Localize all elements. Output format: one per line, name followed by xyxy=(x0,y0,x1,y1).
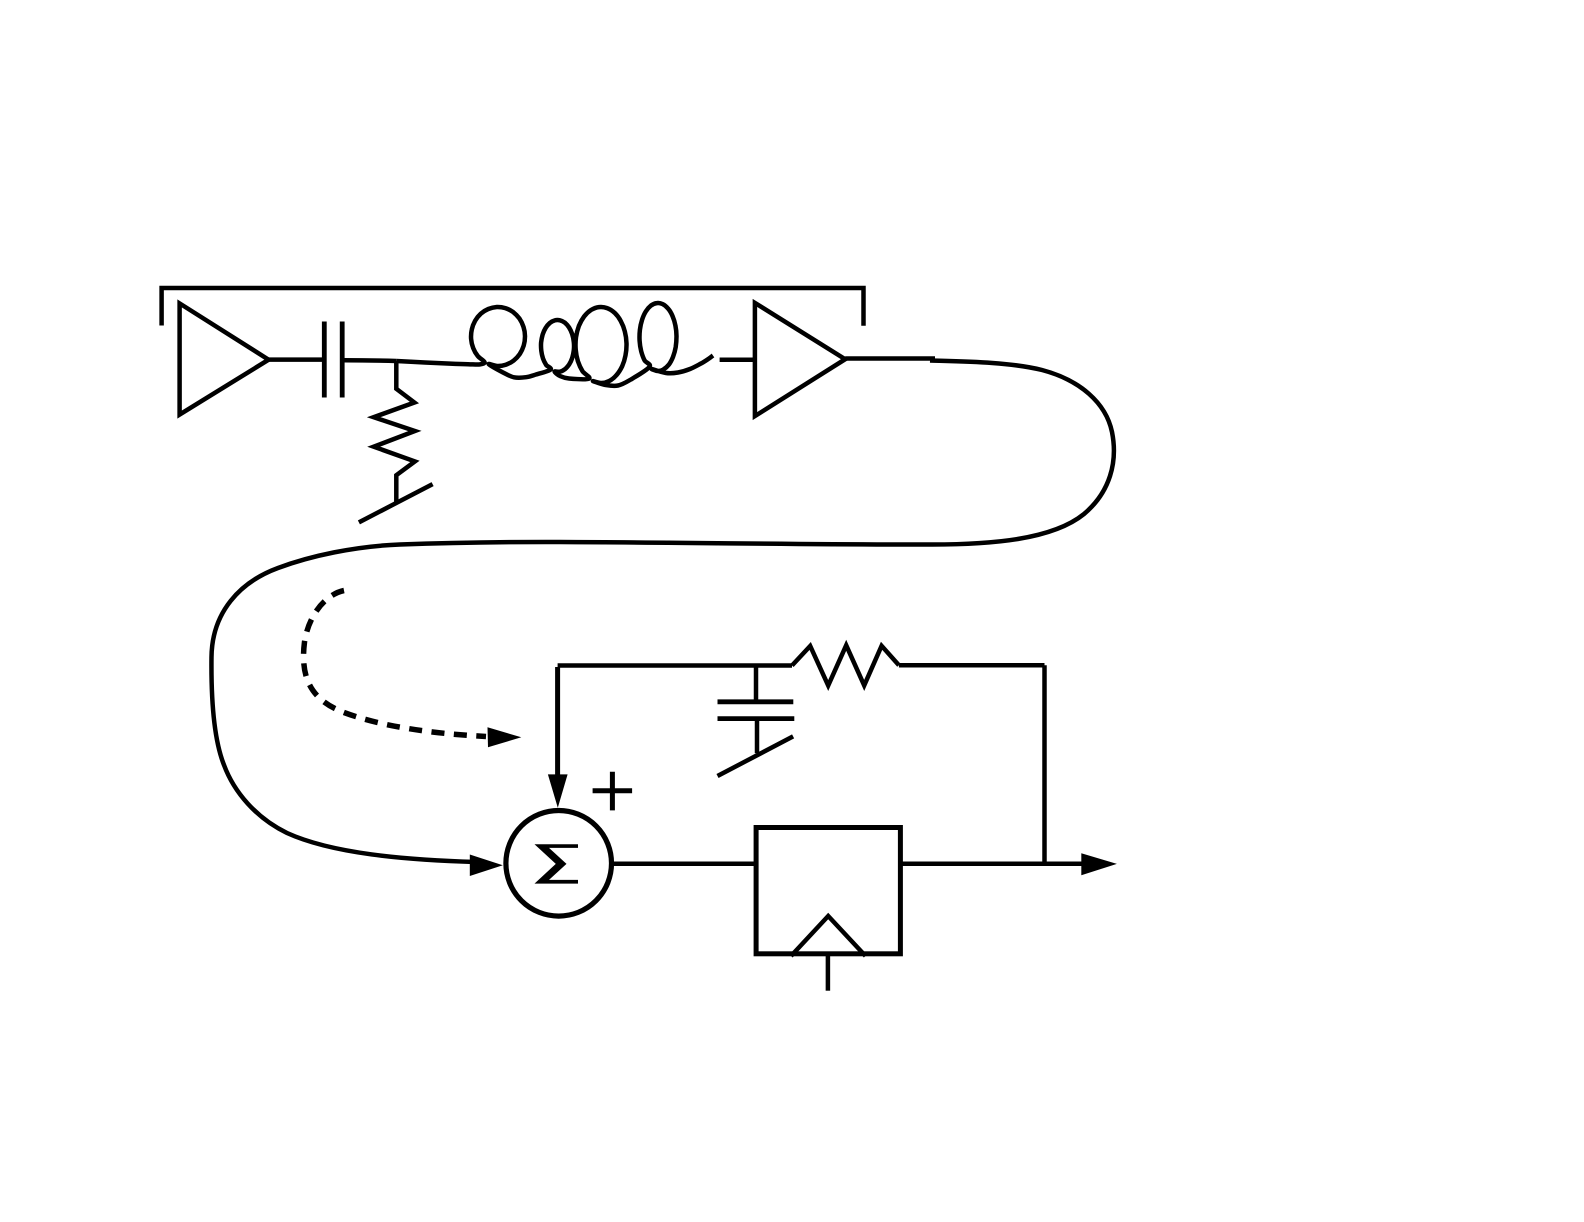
dashed arrow xyxy=(304,591,486,737)
wire summer output to U3 xyxy=(612,861,757,866)
clock wedge xyxy=(791,916,866,956)
op-amp U2 xyxy=(755,303,845,416)
wire U3 output xyxy=(900,861,1085,866)
flip-flop U3 xyxy=(756,828,900,954)
arrowhead dashed xyxy=(488,727,522,747)
ground 2 xyxy=(718,736,794,776)
sigma glyph xyxy=(535,844,579,883)
wire L1 to U2 xyxy=(720,358,753,363)
capacitor C1 xyxy=(324,322,342,398)
capacitor C2 stub bottom xyxy=(755,719,760,754)
wire top bracket xyxy=(162,288,864,326)
wire U1 output to C1 xyxy=(269,357,322,362)
plus label xyxy=(593,772,633,811)
ground xyxy=(359,484,433,522)
resistor R2 xyxy=(792,645,899,685)
capacitor C2 stub top xyxy=(754,666,759,702)
capacitor C2 xyxy=(718,702,795,719)
wire U2 output feedback loop xyxy=(845,356,935,361)
wire summer plus input vertical xyxy=(555,667,560,778)
inductor L1 xyxy=(396,303,713,386)
arrowhead into summer top xyxy=(548,774,568,807)
arrowhead into summer left xyxy=(470,855,503,877)
wire C1 to node A xyxy=(344,358,396,363)
clock stub xyxy=(826,954,831,991)
resistor R1 xyxy=(374,361,415,503)
op-amp U1 xyxy=(180,303,269,414)
wire RC network top-left xyxy=(558,663,792,668)
output arrowhead xyxy=(1081,853,1117,875)
summing junction S1 xyxy=(506,811,612,917)
wire R2 to corner xyxy=(899,663,1045,668)
wire right vertical of RC loop xyxy=(1042,665,1047,864)
